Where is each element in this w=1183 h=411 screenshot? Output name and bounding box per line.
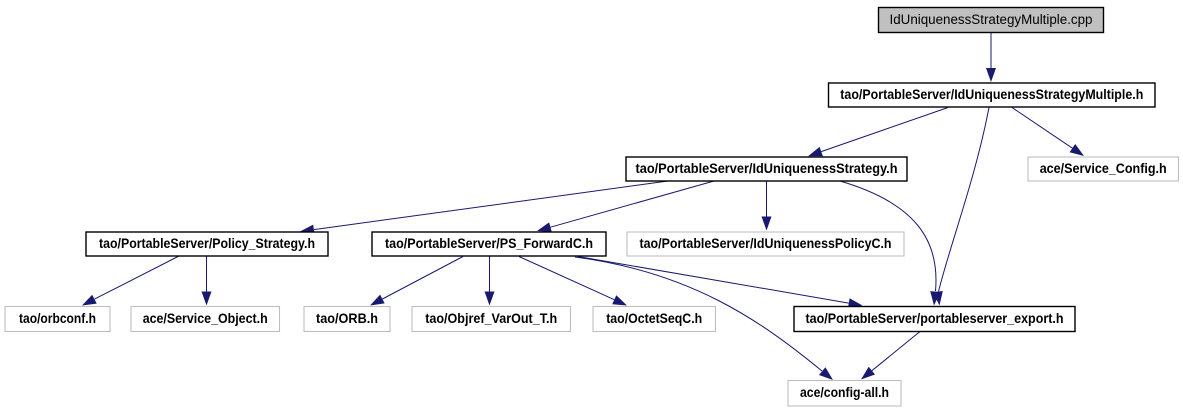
svg-text:ace/Service_Object.h: ace/Service_Object.h	[143, 311, 268, 326]
svg-text:tao/Objref_VarOut_T.h: tao/Objref_VarOut_T.h	[425, 311, 557, 326]
svg-text:tao/ORB.h: tao/ORB.h	[316, 311, 378, 326]
svg-text:tao/OctetSeqC.h: tao/OctetSeqC.h	[606, 311, 702, 326]
svg-text:ace/config-all.h: ace/config-all.h	[800, 385, 889, 400]
svg-text:ace/Service_Config.h: ace/Service_Config.h	[1040, 161, 1167, 176]
svg-text:tao/PortableServer/portableser: tao/PortableServer/portableserver_export…	[806, 311, 1064, 326]
svg-text:tao/PortableServer/IdUniquenes: tao/PortableServer/IdUniquenessPolicyC.h	[640, 236, 892, 251]
svg-text:tao/PortableServer/Policy_Stra: tao/PortableServer/Policy_Strategy.h	[99, 236, 315, 251]
svg-text:tao/PortableServer/PS_ForwardC: tao/PortableServer/PS_ForwardC.h	[385, 236, 593, 251]
svg-text:IdUniquenessStrategyMultiple.c: IdUniquenessStrategyMultiple.cpp	[890, 12, 1093, 27]
svg-text:tao/PortableServer/IdUniquenes: tao/PortableServer/IdUniquenessStrategy.…	[636, 161, 898, 176]
svg-text:tao/orbconf.h: tao/orbconf.h	[19, 311, 96, 326]
svg-text:tao/PortableServer/IdUniquenes: tao/PortableServer/IdUniquenessStrategyM…	[840, 87, 1143, 102]
